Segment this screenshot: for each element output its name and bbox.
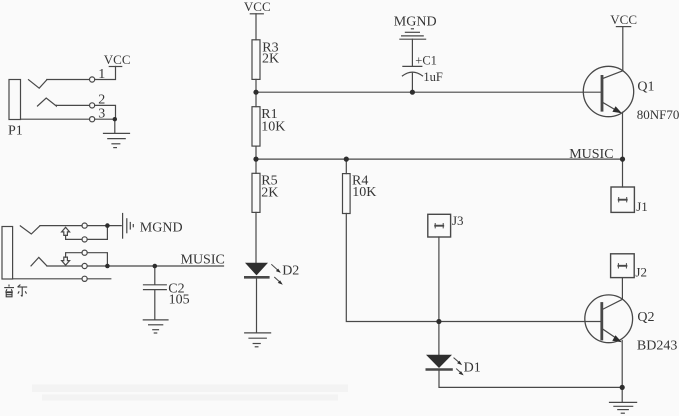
capacitor C1 plus plate	[403, 65, 422, 67]
wire D1 to ground net	[439, 371, 622, 388]
transistor Q2	[585, 295, 633, 343]
svg-text:2: 2	[98, 93, 105, 108]
svg-text:D1: D1	[464, 360, 481, 375]
wire pin3 music	[66, 253, 82, 257]
pin circle 5 music	[82, 276, 87, 281]
wire MUSIC stub	[87, 265, 223, 267]
svg-text:2K: 2K	[262, 52, 279, 67]
svg-text:J1: J1	[636, 199, 648, 214]
wire pin2 up to tip junction	[87, 226, 107, 240]
svg-text:MUSIC: MUSIC	[181, 252, 225, 267]
wire C1 to base net	[411, 73, 413, 92]
wire sleeve music	[13, 278, 82, 280]
wire ring line	[47, 265, 82, 267]
node R1 R5 music	[253, 157, 258, 162]
ground C2	[143, 320, 168, 333]
node C1 base	[410, 90, 415, 95]
svg-text:Q1: Q1	[637, 80, 654, 95]
resistor R1	[252, 107, 260, 146]
resistor R3	[252, 40, 260, 80]
VCC rail right bar	[616, 26, 630, 28]
pin circle 3 music	[82, 250, 87, 255]
wire node to D1	[438, 322, 440, 355]
node J3 D1	[436, 319, 441, 324]
svg-text:10K: 10K	[261, 119, 285, 134]
wire MUSIC node to J1	[622, 159, 624, 187]
pin 3 circle	[90, 117, 95, 122]
wire Q1 emitter to MUSIC node	[622, 112, 624, 159]
VCC bar P1	[109, 66, 121, 68]
P1 ring contact	[38, 98, 57, 106]
node emitter music	[620, 157, 625, 162]
svg-text:3: 3	[98, 107, 105, 122]
node R3 R1 base	[253, 90, 258, 95]
node C2 tap	[153, 264, 158, 269]
wire pin1 to VCC	[95, 67, 116, 80]
svg-text:BD243: BD243	[637, 339, 677, 354]
svg-text:2K: 2K	[261, 186, 278, 201]
wire node to R1	[255, 92, 257, 107]
wire R4 to Q2 base net	[346, 214, 601, 322]
VCC rail left bar	[250, 13, 263, 15]
wire base Q1	[256, 91, 602, 93]
svg-text:VCC: VCC	[610, 12, 637, 27]
tip switch arrow	[62, 227, 70, 235]
wire MGND to C1	[411, 39, 413, 66]
connector jack J? body (music jack)	[2, 227, 13, 280]
tip pin circle	[82, 223, 87, 228]
svg-text:MGND: MGND	[394, 14, 437, 29]
wire pin3 to junction	[95, 118, 116, 120]
ground stem P1	[114, 119, 116, 133]
wire MUSIC net	[256, 158, 623, 160]
resistor R5	[252, 173, 260, 212]
resistor R4	[343, 174, 351, 214]
wire pin3 down to ring junction	[87, 253, 107, 266]
node emitter ground	[620, 385, 625, 390]
music jack ring contact	[31, 257, 47, 266]
svg-text:80NF70: 80NF70	[637, 107, 679, 122]
wire Q2 emitter to ground node	[621, 341, 623, 388]
connector P1 body	[9, 80, 21, 120]
P1 tip contact	[29, 80, 47, 89]
wire sleeve stub	[87, 278, 111, 280]
svg-text:J3: J3	[452, 213, 464, 228]
svg-text:P1: P1	[8, 124, 23, 139]
wire tip to MGND	[87, 225, 121, 227]
wire music node to R4	[345, 159, 347, 174]
capacitor C1 curved plate	[402, 72, 422, 76]
svg-text:10K: 10K	[352, 185, 376, 200]
pin 1 circle	[90, 77, 95, 82]
wire pin1	[47, 79, 90, 81]
svg-text:1uF: 1uF	[423, 70, 443, 84]
connector J1	[611, 187, 634, 212]
wire switch to pin2	[66, 235, 82, 239]
capacitor C2	[144, 266, 167, 320]
pin circle 2 music	[82, 237, 87, 242]
ground power	[610, 402, 637, 413]
ground D2	[245, 333, 271, 347]
svg-text:1: 1	[98, 67, 105, 82]
wire VCC to Q1 collector	[622, 27, 624, 71]
node tip MGND	[105, 223, 110, 228]
connector J2	[611, 254, 635, 278]
wire tip line	[40, 225, 82, 227]
wire pin2	[56, 104, 89, 106]
svg-text:VCC: VCC	[104, 52, 131, 67]
wire J2 to Q2 collector	[621, 278, 623, 300]
label music chinese	[4, 285, 27, 297]
node P1 pin3 gnd	[113, 117, 117, 121]
MGND sideways ground	[123, 214, 134, 239]
svg-text:105: 105	[169, 292, 190, 307]
connector J3	[428, 214, 451, 237]
wire VCC to R3	[255, 14, 257, 40]
ground stem Q2	[621, 387, 623, 402]
pin 2 circle	[90, 103, 95, 108]
svg-text:J2: J2	[635, 265, 647, 280]
ring switch arrow	[62, 257, 70, 265]
wire R1 to music node	[255, 146, 257, 159]
pin circle 4 music	[82, 263, 87, 268]
svg-text:MUSIC: MUSIC	[569, 147, 613, 162]
node ring MUSIC	[105, 264, 110, 269]
svg-text:MGND: MGND	[140, 220, 183, 235]
wire R5 to D2	[255, 212, 257, 262]
LED D2	[245, 263, 268, 333]
wire node to R5	[255, 159, 257, 173]
D2 light arrows	[272, 265, 283, 285]
wire R3 to node	[255, 79, 257, 92]
D1 light arrows	[454, 358, 464, 376]
LED D1	[426, 355, 452, 370]
svg-text:VCC: VCC	[244, 0, 271, 14]
transistor Q1	[583, 66, 633, 116]
watermark remnants	[32, 385, 348, 401]
svg-text:+C1: +C1	[415, 53, 437, 67]
ground MGND top (inverted)	[400, 29, 426, 39]
svg-text:D2: D2	[282, 264, 299, 279]
wire J3 to base net	[438, 237, 440, 322]
node R4 music	[344, 157, 349, 162]
wire pin3 sleeve	[21, 118, 90, 120]
wire pin2 down to pin3	[95, 105, 116, 119]
ground P1	[104, 133, 130, 147]
svg-text:Q2: Q2	[637, 310, 654, 325]
music jack tip contact	[20, 226, 39, 234]
